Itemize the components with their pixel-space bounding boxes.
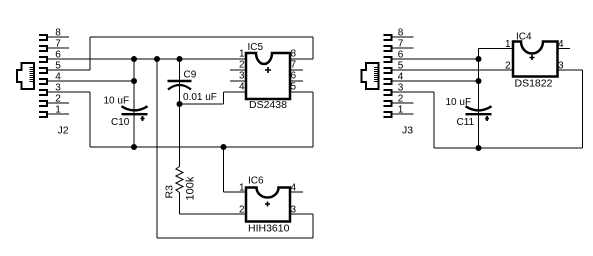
wire into IC6 pin 3: [290, 213, 313, 215]
capacitor C9: [168, 81, 192, 90]
sensor IC6 body (HIH3610): [246, 188, 290, 222]
svg-text:DS1822: DS1822: [515, 78, 553, 90]
svg-text:IC6: IC6: [248, 176, 264, 187]
wire J3 pin 3: [393, 91, 435, 93]
wire jog riser: [223, 92, 225, 104]
wire long drop x157: [156, 59, 158, 238]
junction F: [177, 101, 183, 107]
wire into IC6 pin 1: [224, 191, 247, 193]
svg-text:5: 5: [291, 82, 297, 93]
J3 pin 5: [384, 61, 404, 74]
wire drop to right ground rail: [433, 92, 435, 148]
svg-text:IC4: IC4: [516, 32, 532, 43]
J2 pin 4: [39, 72, 61, 85]
svg-text:C9: C9: [184, 70, 197, 81]
J2 pin 8: [39, 28, 61, 41]
junction D: [131, 78, 137, 84]
wire ground rail: [90, 146, 313, 148]
wire J3 pin 5 to IC4 pin 2: [393, 69, 514, 71]
wire J2 pin 7 stub: [48, 47, 69, 49]
svg-text:2: 2: [239, 60, 245, 71]
svg-text:3: 3: [558, 61, 564, 72]
junction A: [131, 56, 137, 62]
svg-text:R3: R3: [164, 185, 176, 199]
wire J3 pin 7 stub: [393, 47, 414, 49]
wire into IC4 pin 1: [479, 48, 514, 50]
wire IC6 pin 4 stub: [290, 191, 303, 193]
svg-text:C11: C11: [457, 117, 475, 128]
svg-text:J2: J2: [58, 125, 69, 137]
wire IC4 pin 4 stub: [558, 48, 571, 50]
svg-text:IC5: IC5: [248, 42, 264, 53]
capacitor C10: [122, 106, 148, 121]
J3 pin 7: [384, 39, 404, 52]
wire IC5 pin 7 stub: [290, 69, 303, 71]
J3 pin 8: [384, 28, 404, 41]
wire J2 pin 8 stub: [48, 36, 69, 38]
wire into IC5 pin 8: [290, 58, 313, 60]
wire drop to ground rail: [89, 92, 91, 147]
svg-text:10 uF: 10 uF: [104, 96, 130, 107]
J3 pin 2: [384, 94, 404, 107]
svg-text:8: 8: [291, 49, 297, 60]
wire J2 pin 4: [48, 80, 134, 82]
J2 pin 5: [39, 61, 61, 74]
svg-text:4: 4: [291, 183, 297, 194]
junction I: [476, 78, 482, 84]
wire riser to IC6 pin 3: [312, 214, 314, 238]
wire IC5 pin 2 stub: [230, 69, 246, 71]
wire J3 pin 4: [393, 80, 479, 82]
wire J2 pin 6 to IC5 pin 1: [48, 58, 246, 60]
capacitor C11: [466, 106, 492, 121]
wire right rail riser: [582, 70, 584, 148]
connector J2 jack body: [17, 63, 34, 89]
wire top rail: [90, 36, 313, 38]
J2 pin 1: [39, 105, 61, 118]
connector J3 jack body: [361, 63, 378, 89]
wire C9 branch top: [179, 59, 181, 104]
J3 pin 4: [384, 72, 404, 85]
J3 pin 1: [384, 105, 404, 118]
junction B: [154, 56, 160, 62]
svg-text:DS2438: DS2438: [249, 99, 287, 111]
svg-text:J3: J3: [402, 125, 413, 137]
svg-text:4: 4: [558, 39, 564, 50]
junction C: [177, 56, 183, 62]
junction H: [476, 56, 482, 62]
wire jog from C9 node: [180, 103, 224, 105]
wire J2 pin 1 stub: [48, 113, 69, 115]
J3 pin 6: [384, 50, 404, 63]
svg-text:6: 6: [291, 71, 297, 82]
wire top rail drop: [312, 37, 314, 59]
wire bottom rail: [157, 237, 313, 239]
wire J2 pin 3: [48, 91, 90, 93]
wire C11 branch vertical: [478, 49, 480, 149]
sensor IC4 body (DS1822): [513, 42, 558, 77]
wire J3 pin 2 stub: [393, 102, 414, 104]
wire into IC5 pin 5: [290, 91, 313, 93]
svg-text:10 uF: 10 uF: [446, 97, 472, 108]
wire J2 pin 2 stub: [48, 102, 69, 104]
svg-text:1: 1: [239, 183, 245, 194]
wire J3 pin 1 stub: [393, 113, 414, 115]
junction E: [131, 144, 137, 150]
wire into IC6 pin 2: [180, 213, 247, 215]
wire J2 pin 5: [48, 69, 90, 71]
wire riser to top rail: [89, 37, 91, 70]
svg-text:1: 1: [239, 49, 245, 60]
svg-text:0.01 uF: 0.01 uF: [183, 92, 217, 103]
wire IC6 pin 1 riser: [223, 147, 225, 192]
svg-text:4: 4: [239, 82, 245, 93]
wire J3 pin 6: [393, 58, 479, 60]
wire IC5 pin 6 stub: [290, 80, 303, 82]
wire into IC4 pin 3: [558, 69, 583, 71]
svg-text:HIH3610: HIH3610: [248, 223, 290, 235]
wire R3 bottom lead: [179, 193, 181, 215]
svg-text:2: 2: [239, 205, 245, 216]
op-amp U IC5 DS2438 body: [246, 53, 290, 99]
junction K: [476, 145, 482, 151]
svg-text:7: 7: [291, 60, 297, 71]
svg-text:1: 1: [505, 39, 511, 50]
wire R3 top lead: [179, 104, 181, 167]
J3 pin 3: [384, 83, 404, 96]
svg-text:2: 2: [505, 61, 511, 72]
wire into IC5 pin 4: [224, 91, 247, 93]
J2 pin 2: [39, 94, 61, 107]
wire IC5 pin 3 stub: [230, 80, 246, 82]
svg-text:100k: 100k: [185, 176, 197, 200]
svg-text:3: 3: [239, 71, 245, 82]
wire C10 branch vertical: [133, 59, 135, 147]
svg-text:C10: C10: [111, 117, 130, 128]
wire right ground rail: [434, 147, 583, 149]
J2 pin 6: [39, 50, 61, 63]
junction G: [221, 144, 227, 150]
J2 pin 3: [39, 83, 61, 96]
J2 pin 7: [39, 39, 61, 52]
svg-text:3: 3: [291, 205, 297, 216]
resistor R3: [176, 167, 183, 193]
wire ground rail riser: [312, 92, 314, 147]
wire J3 pin 8 stub: [393, 36, 414, 38]
